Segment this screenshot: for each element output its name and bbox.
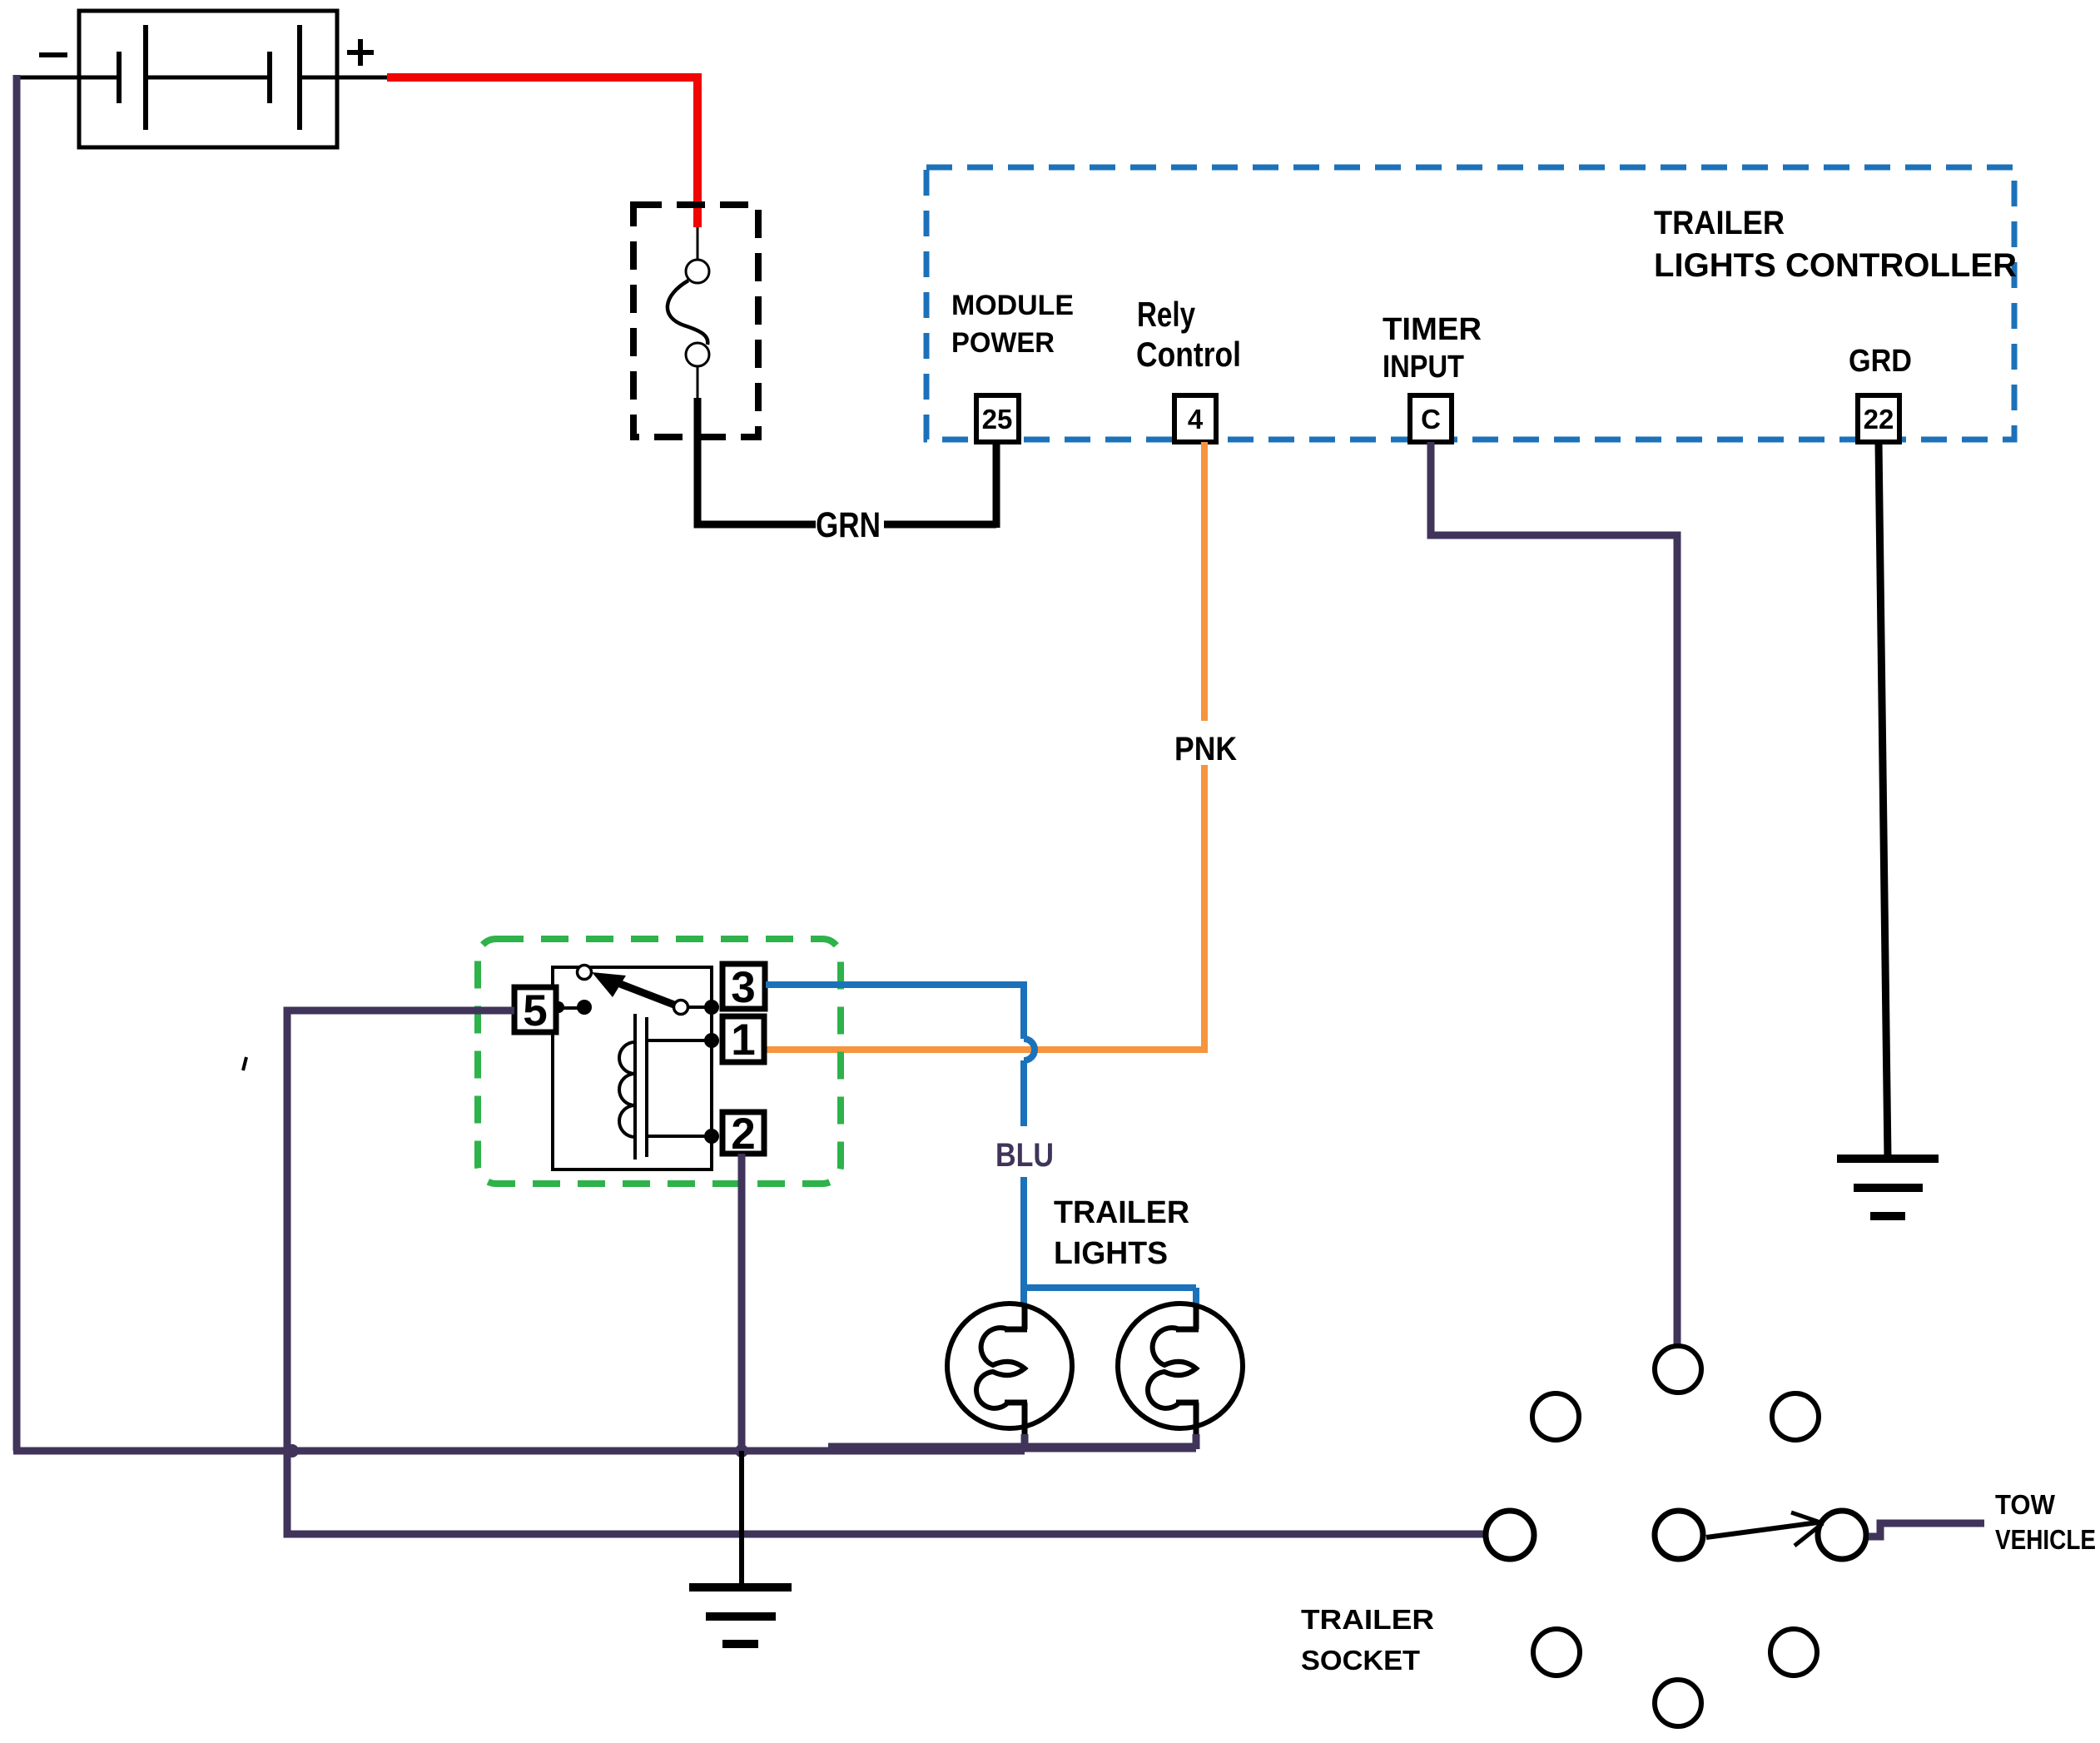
svg-text:4: 4 bbox=[1188, 404, 1204, 435]
socket pin upper-right bbox=[1772, 1393, 1819, 1440]
relay K1 inner body bbox=[553, 967, 712, 1169]
svg-text:Control: Control bbox=[1136, 335, 1241, 374]
pin 25 bbox=[976, 395, 1019, 442]
pin 22 bbox=[1858, 395, 1899, 442]
svg-text:GRN: GRN bbox=[816, 505, 881, 545]
svg-text:SOCKET: SOCKET bbox=[1301, 1645, 1420, 1676]
junction dot ground bus / pin2 bbox=[735, 1444, 748, 1457]
relay pin 5 bbox=[514, 986, 556, 1035]
wire pin 2 to ground bus (purple) bbox=[738, 1154, 746, 1451]
ground symbol right bbox=[1837, 1159, 1939, 1216]
svg-text:2: 2 bbox=[731, 1110, 755, 1159]
socket pin bottom bbox=[1655, 1680, 1701, 1726]
relay switch bbox=[553, 966, 719, 1145]
relay coil bbox=[619, 1014, 712, 1160]
wire battery negative stub bbox=[15, 76, 79, 80]
controller U1 dashed box bbox=[926, 167, 2014, 439]
battery B1 bbox=[79, 11, 337, 147]
bulb L2 bbox=[1118, 1304, 1243, 1449]
wire PNK (orange, pin 4 to relay pin 1) bbox=[1201, 442, 1208, 721]
socket pin lower-right bbox=[1770, 1629, 1817, 1676]
svg-text:5: 5 bbox=[523, 986, 547, 1035]
wire battery positive stub bbox=[337, 76, 391, 80]
svg-text:LIGHTS: LIGHTS bbox=[1054, 1236, 1168, 1271]
svg-text:TOW: TOW bbox=[1995, 1489, 2056, 1520]
socket pin top bbox=[1655, 1346, 1701, 1393]
wire ground bus horizontal bbox=[13, 1448, 1025, 1455]
svg-text:POWER: POWER bbox=[951, 327, 1055, 359]
wire to left ground bbox=[739, 1451, 744, 1587]
svg-text:C: C bbox=[1421, 404, 1441, 435]
wire pin 5 to socket (purple) bbox=[287, 1011, 1487, 1534]
socket pin middle-right bbox=[1818, 1511, 1866, 1559]
svg-text:TRAILER: TRAILER bbox=[1301, 1604, 1434, 1635]
svg-text:1: 1 bbox=[731, 1016, 755, 1065]
socket pin lower-left bbox=[1533, 1629, 1580, 1676]
pin 4 bbox=[1174, 395, 1216, 442]
svg-text:MODULE: MODULE bbox=[951, 290, 1074, 321]
socket pin middle-center bbox=[1655, 1511, 1703, 1559]
svg-text:BLU: BLU bbox=[995, 1137, 1054, 1174]
svg-text:3: 3 bbox=[731, 963, 755, 1012]
wire GRN (fuse to pin 25) bbox=[698, 398, 816, 524]
svg-text:TRAILER: TRAILER bbox=[1654, 205, 1785, 241]
socket arrow bbox=[1706, 1512, 1823, 1546]
svg-text:LIGHTS CONTROLLER: LIGHTS CONTROLLER bbox=[1654, 247, 2017, 284]
svg-text:Rely: Rely bbox=[1137, 295, 1196, 334]
wire TIMER (purple, pin C to socket) bbox=[1431, 442, 1677, 1346]
svg-text:TIMER: TIMER bbox=[1383, 312, 1482, 347]
svg-text:PNK: PNK bbox=[1174, 731, 1237, 767]
wire battery negative vertical (purple) bbox=[13, 75, 21, 1451]
svg-text:VEHICLE: VEHICLE bbox=[1995, 1524, 2096, 1555]
pin C bbox=[1410, 395, 1452, 442]
battery minus sign bbox=[39, 52, 67, 57]
svg-text:INPUT: INPUT bbox=[1383, 350, 1464, 385]
battery plus sign bbox=[347, 39, 374, 66]
trailer socket pins bbox=[1486, 1346, 1866, 1726]
junction dot pin5 wire crossing bbox=[285, 1444, 299, 1457]
svg-text:22: 22 bbox=[1864, 404, 1894, 435]
relay pin 3 bbox=[722, 963, 765, 1012]
socket pin middle-left bbox=[1486, 1511, 1534, 1559]
relay pin 2 bbox=[722, 1110, 764, 1159]
svg-text:GRD: GRD bbox=[1849, 344, 1912, 379]
wire BLU (blue, pin 3 to bulbs) bbox=[766, 985, 1196, 1304]
svg-text:TRAILER: TRAILER bbox=[1054, 1195, 1189, 1230]
wire GRD (pin 22 to ground) bbox=[1879, 442, 1888, 1159]
ground symbol left bbox=[689, 1587, 792, 1644]
wire battery positive (red) bbox=[387, 77, 698, 227]
wire bulbs bottom horizontal bbox=[828, 1443, 1196, 1452]
relay pin 1 bbox=[722, 1016, 764, 1065]
wire to tow vehicle (purple) bbox=[1869, 1523, 1984, 1537]
fuse F1 element bbox=[668, 227, 709, 398]
svg-text:25: 25 bbox=[982, 404, 1013, 435]
socket pin upper-left bbox=[1532, 1393, 1579, 1440]
relay K1 dashed box bbox=[478, 939, 841, 1184]
fuse F1 dashed box bbox=[633, 205, 758, 437]
stray tick mark bbox=[243, 1057, 246, 1070]
bulb L1 bbox=[947, 1304, 1072, 1449]
